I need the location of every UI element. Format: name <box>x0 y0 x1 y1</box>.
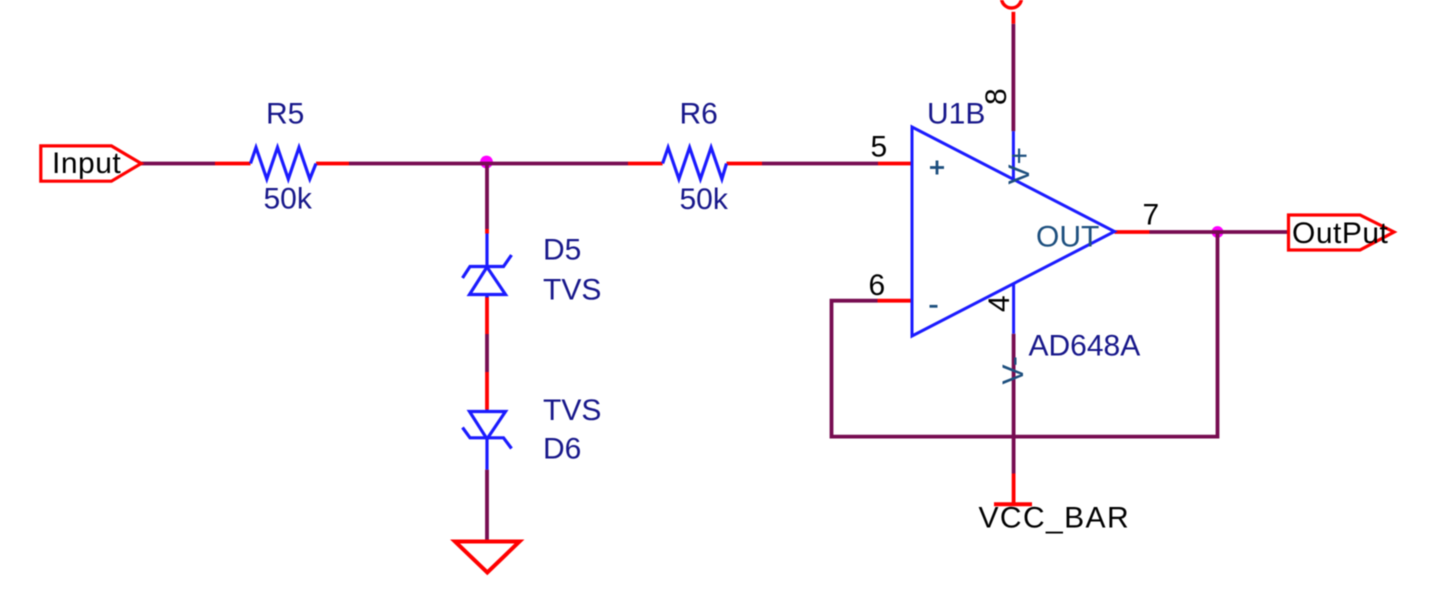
svg-text:50k: 50k <box>264 183 313 216</box>
svg-text:OutPut: OutPut <box>1292 217 1389 250</box>
svg-text:D6: D6 <box>543 433 581 466</box>
svg-text:U1B: U1B <box>927 98 985 131</box>
svg-text:V-: V- <box>997 356 1030 384</box>
svg-text:6: 6 <box>869 269 886 302</box>
svg-text:7: 7 <box>1143 199 1160 232</box>
svg-text:R5: R5 <box>266 98 304 131</box>
svg-text:AD648A: AD648A <box>1029 330 1141 363</box>
svg-text:50k: 50k <box>680 183 729 216</box>
svg-text:R6: R6 <box>680 98 718 131</box>
svg-text:5: 5 <box>871 131 888 164</box>
svg-text:TVS: TVS <box>543 394 601 427</box>
svg-text:OUT: OUT <box>1036 221 1099 254</box>
svg-text:TVS: TVS <box>543 274 601 307</box>
svg-text:VCC_BAR: VCC_BAR <box>979 502 1131 535</box>
svg-text:D5: D5 <box>543 234 581 267</box>
svg-text:Input: Input <box>52 147 121 180</box>
svg-text:V+: V+ <box>1003 147 1036 185</box>
svg-text:8: 8 <box>980 88 1013 105</box>
svg-text:4: 4 <box>983 295 1016 312</box>
